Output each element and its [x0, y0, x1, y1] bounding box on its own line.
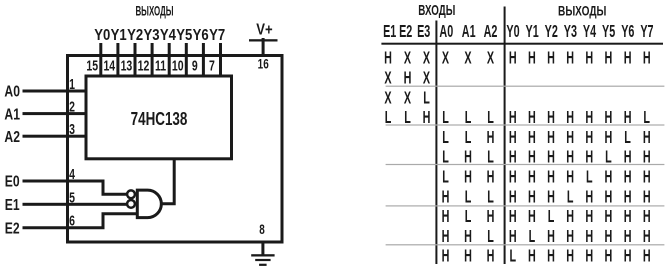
inverter bubble on E1 input — [127, 200, 135, 208]
svg-text:H: H — [566, 49, 574, 68]
power V+ rail bar — [249, 39, 278, 41]
svg-text:X: X — [487, 49, 494, 68]
svg-text:H: H — [528, 128, 536, 147]
svg-text:L: L — [567, 188, 574, 207]
wire gate output to U1 — [162, 158, 174, 204]
svg-text:H: H — [605, 208, 613, 227]
wire A1 — [23, 112, 87, 115]
pin 16 (Vcc) — [258, 56, 269, 72]
wire pin 8 to ground — [261, 242, 264, 255]
svg-text:H: H — [643, 227, 651, 246]
node Y5 label — [176, 27, 192, 44]
svg-text:Y0: Y0 — [506, 23, 519, 42]
svg-text:L: L — [487, 188, 494, 207]
svg-text:Y7: Y7 — [640, 23, 653, 42]
svg-text:74HC138: 74HC138 — [131, 109, 188, 130]
svg-text:H: H — [624, 49, 632, 68]
svg-text:Y0: Y0 — [94, 27, 110, 44]
truth table separator after row 2 — [386, 86, 665, 87]
svg-text:E1: E1 — [5, 196, 20, 214]
svg-text:H: H — [487, 247, 495, 266]
svg-text:Y5: Y5 — [602, 23, 615, 42]
truth table row 5 — [442, 128, 650, 147]
svg-text:H: H — [442, 247, 450, 266]
svg-text:15: 15 — [86, 57, 98, 74]
node E0 label — [5, 173, 20, 191]
svg-text:H: H — [585, 188, 593, 207]
svg-text:E3: E3 — [417, 23, 430, 42]
svg-text:H: H — [624, 247, 632, 266]
svg-text:L: L — [465, 208, 472, 227]
node Y3 label — [143, 27, 159, 44]
svg-text:2: 2 — [69, 98, 75, 115]
svg-text:H: H — [509, 168, 517, 187]
svg-text:L: L — [442, 128, 449, 147]
svg-text:Y2: Y2 — [127, 27, 143, 44]
op IC U1 74HC138 body — [86, 76, 232, 159]
gate G1 3-input AND (enable logic) — [137, 190, 161, 218]
svg-text:Y6: Y6 — [193, 27, 209, 44]
truth table row 7 — [442, 168, 650, 187]
truth table row 6 — [442, 148, 650, 167]
svg-text:H: H — [566, 247, 574, 266]
svg-text:H: H — [509, 128, 517, 147]
pin 11 (output Y4) — [155, 57, 166, 74]
svg-text:H: H — [442, 188, 450, 207]
svg-text:12: 12 — [138, 57, 150, 74]
svg-text:X: X — [464, 49, 471, 68]
truth table row 8 — [442, 188, 651, 207]
svg-text:L: L — [529, 227, 536, 246]
pin 14 (output Y1) — [103, 57, 115, 74]
wire E1 (to inverted gate input) — [23, 203, 128, 206]
svg-text:H: H — [384, 49, 392, 68]
node A0 label — [4, 83, 20, 101]
svg-text:X: X — [404, 89, 411, 108]
wire E0 (to inverted gate input) — [23, 181, 128, 194]
svg-text:H: H — [585, 128, 593, 147]
truth table separator after row 4 — [386, 124, 665, 125]
wire A0 — [23, 90, 87, 93]
svg-text:L: L — [586, 168, 593, 187]
svg-text:L: L — [487, 227, 494, 246]
svg-text:H: H — [547, 227, 555, 246]
svg-text:H: H — [528, 49, 536, 68]
svg-text:H: H — [464, 168, 472, 187]
pin 9 (output Y6) — [192, 57, 198, 74]
svg-text:Y4: Y4 — [160, 27, 177, 44]
svg-text:H: H — [566, 168, 574, 187]
truth table row 3 — [384, 89, 430, 108]
svg-text:H: H — [509, 227, 517, 246]
truth table row 9 — [442, 208, 651, 227]
svg-text:Y1: Y1 — [526, 23, 539, 42]
svg-text:H: H — [547, 128, 555, 147]
inverter bubble on E0 input — [127, 190, 135, 198]
pin 12 (output Y3) — [138, 57, 150, 74]
svg-text:11: 11 — [155, 57, 166, 74]
node Y4 label — [160, 27, 177, 44]
pin 13 (output Y2) — [121, 57, 133, 74]
svg-text:H: H — [547, 188, 555, 207]
svg-text:L: L — [510, 247, 517, 266]
svg-text:14: 14 — [103, 57, 115, 74]
power V+ label — [256, 21, 272, 38]
svg-text:H: H — [643, 247, 651, 266]
svg-text:X: X — [442, 49, 449, 68]
svg-text:H: H — [585, 247, 593, 266]
svg-text:A2: A2 — [484, 23, 498, 42]
truth table separator after row 10 — [386, 244, 665, 245]
svg-text:7: 7 — [209, 57, 215, 74]
svg-text:L: L — [548, 208, 555, 227]
svg-text:H: H — [624, 188, 632, 207]
svg-text:H: H — [404, 69, 412, 88]
svg-text:ВЫХОДЫ: ВЫХОДЫ — [558, 3, 606, 19]
svg-text:H: H — [528, 168, 536, 187]
truth table title ВЫХОДЫ — [558, 3, 606, 19]
node E2 label — [5, 220, 20, 238]
svg-text:H: H — [442, 208, 450, 227]
node Y7 label — [209, 27, 225, 44]
svg-text:H: H — [566, 128, 574, 147]
wire Y2 — [134, 43, 137, 78]
truth table row 10 — [442, 227, 651, 246]
svg-text:3: 3 — [69, 120, 75, 137]
svg-text:1: 1 — [69, 75, 75, 92]
truth table divider E3/A0 — [435, 21, 437, 265]
wire Y1 — [116, 43, 119, 78]
svg-text:X: X — [423, 49, 430, 68]
svg-text:H: H — [624, 227, 632, 246]
pin 3 (address input A2) — [69, 120, 75, 137]
wire Y4 — [168, 43, 171, 78]
pin 1 (address input A0) — [69, 75, 75, 92]
pin 6 (enable input E2) — [69, 212, 75, 229]
node Y1 label — [111, 27, 127, 44]
svg-text:X: X — [423, 69, 430, 88]
svg-text:H: H — [624, 208, 632, 227]
svg-text:H: H — [487, 168, 495, 187]
svg-text:H: H — [585, 208, 593, 227]
svg-text:ВХОДЫ: ВХОДЫ — [418, 2, 455, 18]
node A1 label — [4, 106, 20, 124]
node Y2 label — [127, 27, 143, 44]
svg-text:H: H — [509, 188, 517, 207]
node Y0 label — [94, 27, 110, 44]
node A2 label — [4, 128, 20, 146]
svg-text:X: X — [384, 69, 391, 88]
pin 2 (address input A1) — [69, 98, 75, 115]
svg-text:H: H — [605, 128, 613, 147]
svg-text:Y4: Y4 — [583, 23, 596, 42]
net label ВЫХОДЫ (outputs title) — [135, 4, 173, 19]
svg-text:H: H — [643, 49, 651, 68]
ground symbol — [251, 254, 274, 266]
svg-text:Y3: Y3 — [564, 23, 577, 42]
svg-text:H: H — [464, 247, 472, 266]
truth table separator after row 8 — [386, 205, 665, 206]
svg-text:H: H — [585, 227, 593, 246]
svg-text:H: H — [605, 247, 613, 266]
svg-text:13: 13 — [121, 57, 133, 74]
svg-text:A1: A1 — [4, 106, 20, 124]
node E1 label — [5, 196, 20, 214]
pin 10 (output Y5) — [172, 57, 184, 74]
svg-text:A0: A0 — [439, 23, 453, 42]
svg-text:9: 9 — [192, 57, 198, 74]
svg-text:H: H — [528, 188, 536, 207]
svg-text:V+: V+ — [256, 21, 272, 38]
wire Y0 — [99, 43, 102, 78]
svg-text:H: H — [605, 227, 613, 246]
package outline (DIP-16 boundary) — [68, 56, 283, 243]
pin 5 (enable input E1) — [69, 188, 75, 205]
svg-text:E0: E0 — [5, 173, 20, 191]
node Y6 label — [193, 27, 209, 44]
truth table separator after row 6 — [386, 164, 665, 165]
pin 4 (enable input E0) — [69, 165, 75, 182]
svg-text:L: L — [465, 128, 472, 147]
svg-text:L: L — [442, 168, 449, 187]
svg-text:8: 8 — [259, 221, 265, 237]
pin 8 (GND) — [259, 221, 265, 237]
svg-text:A1: A1 — [462, 23, 476, 42]
svg-text:10: 10 — [172, 57, 184, 74]
svg-text:Y3: Y3 — [143, 27, 159, 44]
pin 15 (output Y0) — [86, 57, 98, 74]
svg-text:L: L — [423, 89, 430, 108]
truth table row 2 — [384, 69, 430, 88]
svg-text:H: H — [605, 188, 613, 207]
svg-text:Y1: Y1 — [111, 27, 127, 44]
svg-text:H: H — [442, 227, 450, 246]
svg-text:H: H — [487, 208, 495, 227]
svg-text:H: H — [509, 49, 517, 68]
wire Y3 — [151, 43, 154, 78]
svg-text:H: H — [509, 208, 517, 227]
truth table header underline — [381, 43, 663, 45]
svg-text:L: L — [465, 188, 472, 207]
svg-text:H: H — [464, 227, 472, 246]
svg-text:H: H — [643, 208, 651, 227]
svg-text:A0: A0 — [4, 83, 20, 101]
svg-text:H: H — [605, 168, 613, 187]
wire Y7 — [219, 43, 222, 78]
svg-text:E2: E2 — [399, 23, 412, 42]
svg-text:E1: E1 — [383, 23, 396, 42]
svg-text:E2: E2 — [5, 220, 20, 238]
svg-text:H: H — [547, 247, 555, 266]
pin 7 (output Y7) — [209, 57, 215, 74]
value label 74HC138 — [131, 109, 188, 130]
svg-text:H: H — [643, 188, 651, 207]
svg-text:H: H — [566, 208, 574, 227]
svg-text:Y7: Y7 — [209, 27, 225, 44]
wire V+ to pin 16 — [262, 38, 265, 57]
svg-text:H: H — [487, 128, 495, 147]
svg-text:ВЫХОДЫ: ВЫХОДЫ — [135, 4, 173, 19]
svg-text:H: H — [547, 168, 555, 187]
svg-text:Y6: Y6 — [621, 23, 634, 42]
svg-text:A2: A2 — [4, 128, 20, 146]
wire Y5 — [185, 43, 188, 78]
svg-text:H: H — [643, 128, 651, 147]
svg-text:Y2: Y2 — [545, 23, 558, 42]
svg-text:H: H — [547, 49, 555, 68]
wire E2 (to gate input) — [23, 214, 138, 228]
svg-text:H: H — [605, 49, 613, 68]
wire Y6 — [202, 43, 205, 78]
svg-text:H: H — [528, 247, 536, 266]
svg-text:H: H — [566, 227, 574, 246]
svg-text:L: L — [624, 128, 631, 147]
wire A2 — [23, 135, 87, 138]
svg-text:Y5: Y5 — [176, 27, 192, 44]
truth table divider A2/Y0 — [504, 7, 506, 265]
svg-text:X: X — [404, 49, 411, 68]
truth table row 11 — [442, 247, 651, 266]
truth table column headers — [383, 23, 653, 42]
truth table row 1 — [384, 49, 650, 68]
svg-text:X: X — [384, 89, 391, 108]
truth table title ВХОДЫ — [418, 2, 455, 18]
svg-text:H: H — [585, 49, 593, 68]
svg-text:H: H — [624, 168, 632, 187]
svg-text:16: 16 — [258, 56, 269, 72]
truth table row 4 — [385, 109, 650, 128]
svg-text:H: H — [643, 168, 651, 187]
svg-text:H: H — [528, 208, 536, 227]
